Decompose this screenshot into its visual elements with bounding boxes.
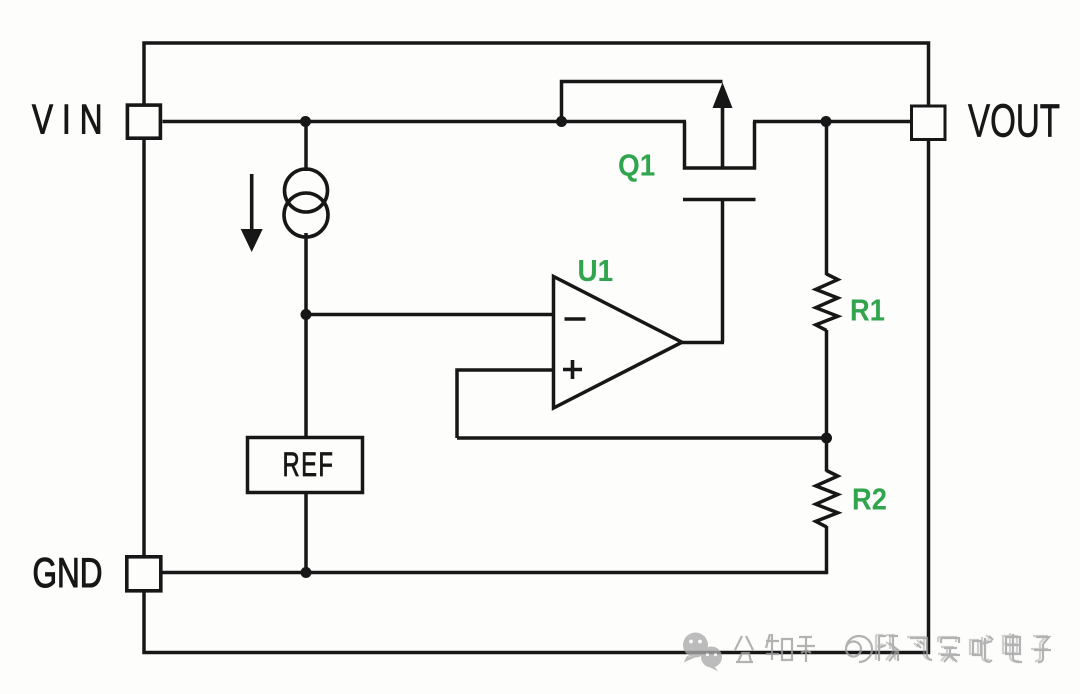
transistor Q1 body arrow [713, 83, 733, 169]
svg-text:GND: GND [33, 549, 103, 597]
wire VIN to current source [304, 122, 308, 172]
IC block boundary [144, 43, 929, 653]
op-amp U1 [554, 277, 683, 409]
junction REF / GND rail [301, 567, 312, 578]
U1 inverting input marker [565, 317, 586, 321]
resistor R1 [816, 274, 838, 330]
wire Q1 bulk loop [562, 82, 723, 122]
junction VOUT / R1 [821, 116, 832, 127]
glyphs 张飞实战电子 [879, 634, 1051, 662]
wire GND rail [163, 571, 829, 575]
wire current source to REF [304, 233, 308, 439]
svg-text:REF: REF [283, 446, 335, 484]
watermark ghost copy [876, 633, 1048, 661]
transistor Q1 gate bar [683, 198, 756, 202]
glyph 知 [766, 634, 792, 660]
wire VIN rail [163, 120, 687, 124]
watermark wechat icon [683, 633, 722, 672]
svg-text:VOUT: VOUT [968, 96, 1060, 146]
U1 non-inverting input marker [563, 360, 582, 379]
junction VIN / current source [300, 116, 311, 127]
wire VOUT to R1 [825, 122, 829, 276]
reference block REF [248, 438, 363, 493]
junction feedback node FB [821, 433, 832, 444]
wire R2 to GND rail [825, 526, 829, 574]
wire Q1 drain to VOUT [753, 120, 910, 124]
wire inverting input [306, 313, 554, 317]
current direction arrow [241, 174, 263, 252]
wire node FB to R2 [825, 438, 829, 472]
svg-text:VIN: VIN [32, 95, 111, 143]
pin pad GND [127, 557, 161, 591]
current source I1 [284, 169, 328, 237]
wire feedback to node FB [457, 436, 827, 440]
watermark text (pseudo CJK glyphs) [735, 633, 1051, 662]
wire Q1 gate lead [721, 200, 725, 343]
junction Q1 bulk / source [556, 116, 567, 127]
glyph @ [846, 636, 872, 662]
svg-text:Q1: Q1 [618, 148, 655, 183]
pin pad VIN [127, 105, 160, 138]
pin pad VOUT [912, 106, 946, 140]
wire op-amp output [682, 341, 724, 345]
glyph 乎 [797, 637, 815, 662]
wire REF to GND rail [304, 493, 308, 573]
wire non-inverting input [457, 370, 554, 438]
wire Q1 source-drain notch [685, 122, 755, 169]
glyph 公 [735, 636, 753, 662]
junction inverting-input tap [301, 309, 312, 320]
wire R1 to node FB [825, 330, 829, 438]
resistor R2 [816, 471, 838, 527]
svg-text:R1: R1 [850, 294, 885, 328]
svg-text:U1: U1 [578, 254, 614, 289]
svg-text:R2: R2 [852, 483, 887, 517]
